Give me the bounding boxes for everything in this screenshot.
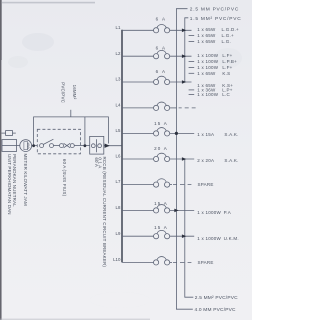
feed arrow on line B for L3 <box>182 80 186 84</box>
svg-text:kWh: kWh <box>26 143 30 150</box>
svg-text:16MM²: 16MM² <box>72 85 77 100</box>
svg-text:6 A: 6 A <box>156 16 167 21</box>
svg-text:L7: L7 <box>116 179 121 184</box>
svg-text:0.1 A: 0.1 A <box>98 157 103 168</box>
feed arrow on line B for L9 <box>182 234 186 238</box>
fuse L9 <box>154 230 170 238</box>
svg-text:1 x 100WL.C: 1 x 100WL.C <box>197 92 230 97</box>
wire switch to RCCB <box>74 145 89 147</box>
wire supply unit to meter <box>17 145 20 147</box>
svg-text:PVC/PVC: PVC/PVC <box>61 82 66 103</box>
svg-text:1 x 100WL.F+: 1 x 100WL.F+ <box>197 65 232 70</box>
svg-text:6 A: 6 A <box>156 69 167 74</box>
fuse terminal circle <box>60 144 64 148</box>
kWh meter M1 <box>20 140 32 152</box>
switch S1 pivot <box>40 144 44 148</box>
svg-text:L9: L9 <box>116 231 121 236</box>
label tick L1 <box>189 41 195 43</box>
label tick L2 <box>189 72 195 74</box>
wire bus to fuse L9 <box>122 235 154 237</box>
loop middle drop wire <box>84 117 86 144</box>
wire fuse L4 stub <box>170 107 177 109</box>
wire bus to fuse L3 <box>122 81 154 83</box>
fuse terminal circle <box>70 144 74 148</box>
16MM2 label leader <box>70 110 72 117</box>
svg-text:L8: L8 <box>116 205 121 210</box>
wire bus to fuse L5 <box>122 132 154 134</box>
svg-text:RCCB (RESIDUAL CURRENT CIRCUIT: RCCB (RESIDUAL CURRENT CIRCUIT BREAKER) <box>102 157 107 268</box>
RCCB box <box>90 136 104 154</box>
wire fuse L9 to line B <box>170 235 195 237</box>
wire fuse L6 to line B <box>170 158 195 160</box>
distribution line B upper (1.5MM) <box>185 18 189 82</box>
svg-text:L10: L10 <box>113 257 121 262</box>
fuse L5 <box>154 128 170 136</box>
feed arrow on line B for L6 <box>182 157 186 161</box>
wire bus to fuse L1 <box>122 29 154 31</box>
fuse L2 <box>154 50 170 58</box>
distribution line B lower (2.5MM) <box>185 159 194 297</box>
incoming service fuse <box>6 131 13 136</box>
svg-text:1 x 1000WU.K.M.: 1 x 1000WU.K.M. <box>197 236 239 241</box>
feed arrow junction to bus <box>105 144 110 148</box>
wire bus to fuse L10 <box>122 261 154 263</box>
junction node before RCCB <box>84 144 87 147</box>
svg-text:1.5 MM² PVC/PVC: 1.5 MM² PVC/PVC <box>190 16 242 22</box>
svg-text:1 x 1000WP.A: 1 x 1000WP.A <box>197 210 231 215</box>
feed arrow on line B for L2 <box>182 54 186 58</box>
wire meter to main switch <box>32 145 38 147</box>
feed arrow on line A for L8 <box>174 209 178 213</box>
svg-text:1 x 65WL.G.: 1 x 65WL.G. <box>197 39 231 44</box>
wire fuse L5 to line A <box>170 132 195 134</box>
fuse L3 <box>154 76 170 84</box>
svg-text:1 x 100WL.F+: 1 x 100WL.F+ <box>197 53 232 58</box>
distribution line A (2.5MM/4.0MM) <box>176 9 192 310</box>
wire fuse L2 to line B <box>170 55 192 57</box>
svg-text:L4: L4 <box>116 103 121 108</box>
scan top smear <box>2 2 95 4</box>
svg-text:METER KILOWATT JAM: METER KILOWATT JAM <box>23 154 28 206</box>
wire fuse L8 to line A <box>170 209 195 211</box>
wire fuse L10 stub <box>170 261 172 263</box>
svg-text:60 A (SUIS FIUS): 60 A (SUIS FIUS) <box>62 159 67 197</box>
wire RCCB to bus <box>104 145 122 147</box>
RCCB trip bar <box>95 139 97 152</box>
fuse L4 <box>154 102 170 110</box>
svg-text:SPARE: SPARE <box>198 182 214 187</box>
wire bus to fuse L8 <box>122 209 154 211</box>
svg-text:2.5 MM² PVC/PVC: 2.5 MM² PVC/PVC <box>195 295 238 301</box>
wire fuse L1 to line B <box>170 29 192 31</box>
main switch enclosure (dashed) <box>37 129 80 154</box>
main bus <box>121 30 123 263</box>
fuse terminal circle <box>50 144 54 148</box>
wire <box>54 145 60 147</box>
svg-text:6 A: 6 A <box>156 45 167 50</box>
wire bus to fuse L4 <box>122 107 154 109</box>
fuse L10 <box>154 257 170 265</box>
svg-text:2.5 MM PVC/PVC: 2.5 MM PVC/PVC <box>190 7 239 13</box>
svg-text:SPARE: SPARE <box>198 260 214 265</box>
svg-text:L2: L2 <box>116 51 121 56</box>
spare dashed wire L7 <box>173 184 191 186</box>
fuse L8 <box>154 205 170 213</box>
scan left edge <box>0 0 1 320</box>
label tick L2 <box>189 67 195 69</box>
wire fuse L7 stub <box>170 184 172 186</box>
junction node after meter <box>32 144 35 147</box>
svg-text:L6: L6 <box>116 154 121 159</box>
svg-text:UNIT PERKHIDMATAN DAN: UNIT PERKHIDMATAN DAN <box>7 154 12 215</box>
spare dashed wire L4 <box>179 107 196 109</box>
fuse element X <box>64 143 71 148</box>
label tick L3 <box>189 93 195 95</box>
fuse L1 <box>154 24 170 32</box>
svg-text:4.0 MM PVC/PVC: 4.0 MM PVC/PVC <box>195 307 237 313</box>
feed arrow on line B for L1 <box>182 29 186 33</box>
svg-text:15 A: 15 A <box>154 121 168 126</box>
incoming service fuse wire <box>2 132 16 134</box>
spare dashed wire L10 <box>173 261 191 263</box>
RCCB pole circle <box>91 144 95 148</box>
svg-text:L3: L3 <box>116 77 121 82</box>
fuse L7 <box>154 179 170 187</box>
label tick L1 <box>189 34 195 36</box>
fuse L6 <box>154 153 170 161</box>
junction dot on line A for L5 <box>175 132 178 135</box>
svg-text:L1: L1 <box>116 25 121 30</box>
svg-text:15 A: 15 A <box>154 225 168 230</box>
svg-text:1 x 100WL.P.B+: 1 x 100WL.P.B+ <box>197 59 237 64</box>
svg-text:L5: L5 <box>116 128 121 133</box>
wire bus to fuse L6 <box>122 158 154 160</box>
label tick L2 <box>189 61 195 63</box>
supply unit box <box>2 140 17 152</box>
svg-text:15 A: 15 A <box>154 201 168 206</box>
switch S1 blade <box>43 139 53 144</box>
svg-text:PERANDKAN NUETRAL: PERANDKAN NUETRAL <box>12 154 17 207</box>
label tick L3 <box>189 89 195 91</box>
RCCB pole circle <box>98 144 102 148</box>
svg-text:1 x 65WK.S: 1 x 65WK.S <box>197 71 230 76</box>
wire bus to fuse L2 <box>122 55 154 57</box>
svg-text:20 A: 20 A <box>154 146 168 151</box>
wire bus to fuse L7 <box>122 184 154 186</box>
16mm2 loop wire over switch <box>34 117 109 145</box>
wire fuse L3 to line B <box>170 81 192 83</box>
